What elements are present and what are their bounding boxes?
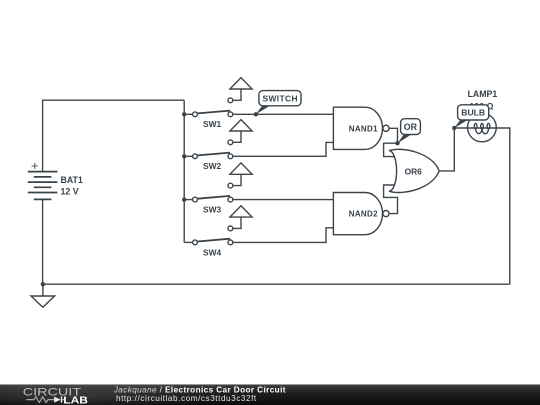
svg-text:http://circuitlab.com/cs3ttdu3: http://circuitlab.com/cs3ttdu3c32ft [116,394,257,403]
anchor dot [254,112,258,116]
SW4 right terminal [228,240,233,245]
SW4 left terminal [193,240,198,245]
SW2 throw triangle [230,120,252,131]
NAND2 output bubble [383,211,389,217]
battery plus sign [32,163,38,169]
svg-text:SW2: SW2 [203,161,221,171]
svg-text:SW3: SW3 [203,205,221,215]
SW1 top throw terminal [228,98,233,103]
SW3 top throw bend wire [233,174,241,185]
wire bus to SW1 left terminal [184,113,192,115]
wire SW4 to NAND2 input B [233,228,334,243]
junction node OR annotation anchor [395,141,399,145]
battery BAT1 [28,172,58,200]
wire OR6 output to lamp [439,128,467,171]
switch SW3 [182,163,333,215]
callout OR [398,119,421,144]
tail [256,105,271,115]
NAND1 body [333,107,382,149]
svg-text:SWITCH: SWITCH [262,93,297,103]
wire NAND1 output to OR6 input A [384,128,398,156]
svg-text:OR6: OR6 [405,167,423,177]
OR6 body [389,149,439,192]
wire SW3 to NAND2 input A [233,199,334,201]
tail [454,119,468,128]
NAND1 output bubble [383,125,389,131]
tail [398,134,413,144]
anchor dot [452,126,456,130]
svg-text:LAB: LAB [63,396,88,405]
SW1 lever [198,111,230,114]
switch SW2 [182,120,333,172]
lamp LAMP1 [467,89,497,142]
wire bus to SW4 left terminal [184,241,192,243]
svg-text:SW4: SW4 [203,247,221,257]
wire SW1 to NAND1 input A [233,113,334,115]
SW2 left terminal [193,154,198,159]
wire switch bus vertical [183,100,185,242]
svg-text:NAND2: NAND2 [349,210,378,219]
SW2 top throw bend wire [233,131,241,142]
bubble [259,91,301,106]
switch SW4 [184,206,333,258]
gate NAND2 [333,185,397,235]
LAMP1 bulb circle [468,113,497,142]
junction on bus [182,197,186,201]
SW3 left terminal [193,197,198,202]
wire battery negative down to ground node [42,199,44,284]
logo resistor zigzag [26,397,54,403]
svg-text:NAND1: NAND1 [349,124,378,133]
SW1 right terminal [228,112,233,117]
SW1 left terminal [193,112,198,117]
SW4 top throw bend wire [233,217,241,228]
wire battery positive to switch bus [43,100,185,171]
SW2 lever [198,153,230,156]
svg-text:12 V: 12 V [61,186,79,196]
svg-text:SW1: SW1 [203,119,221,129]
wire NAND2 output to OR6 input B [384,185,398,214]
gate NAND1 [333,107,399,156]
wire right side up to lamp [496,128,510,284]
bubble [458,105,489,120]
SW4 lever [198,239,230,242]
gate OR6 [389,128,468,193]
switch SW1 [182,78,333,130]
SW4 throw triangle [230,206,252,217]
junction on bus [182,112,186,116]
SW1 throw triangle [230,78,252,89]
ground junction node [41,282,45,286]
wire bus to SW2 left terminal [184,155,192,157]
NAND2 body [333,193,382,235]
SW3 throw triangle [230,163,252,174]
svg-text:OR: OR [404,122,418,132]
filament loops [474,123,477,129]
wire bus to SW3 left terminal [184,199,192,201]
filament wire through [468,127,497,129]
SW3 right terminal [228,197,233,202]
filament dips [476,129,482,134]
SW2 right terminal [228,154,233,159]
callout BULB [452,105,489,130]
junction on bus [182,154,186,158]
SW3 lever [198,196,230,199]
callout SWITCH [254,91,301,117]
SW4 top throw terminal [228,226,233,231]
wire bottom return from ground node to lamp [43,283,510,285]
bubble [401,119,421,135]
footer bar [0,380,540,405]
svg-text:BAT1: BAT1 [61,175,83,185]
SW3 top throw terminal [228,183,233,188]
wire SW2 to NAND1 input B [233,142,334,156]
SW2 top throw terminal [228,140,233,145]
ground symbol [31,284,55,307]
SW1 top throw bend wire [233,89,241,100]
svg-text:BULB: BULB [461,108,485,118]
svg-text:LAMP1: LAMP1 [467,89,497,99]
logo diode [54,397,60,403]
